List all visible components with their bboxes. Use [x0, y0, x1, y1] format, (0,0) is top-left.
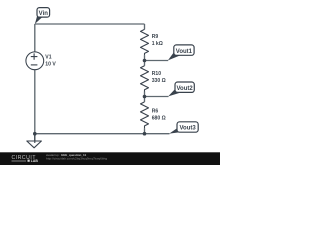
wire left vertical upper (Vin corner to V1 top) [34, 24, 36, 52]
svg-text:V1: V1 [45, 55, 51, 61]
svg-text:http://circuitlab.com/c2bq3hcq: http://circuitlab.com/c2bq3hcq9mq7kwq6bh… [46, 156, 107, 160]
wire top horizontal from Vin corner to R9 top [35, 23, 145, 25]
svg-text:Vout3: Vout3 [179, 126, 196, 132]
resistor R6 [141, 102, 149, 128]
ground [27, 134, 42, 148]
footer bar [0, 152, 220, 165]
label R9 value [152, 34, 163, 47]
wire R6 top lead [144, 97, 146, 102]
node flag Vin [35, 8, 50, 24]
node flag Vout1 [168, 45, 194, 61]
junction node Vout2 [143, 95, 147, 99]
junction node Vout1 [143, 59, 147, 63]
resistor R10 [141, 66, 149, 92]
wire R9 bottom lead to node Vout1 [144, 55, 146, 60]
wire R10 bottom lead to node Vout2 [144, 92, 146, 97]
svg-text:1 kΩ: 1 kΩ [152, 41, 163, 47]
junction node ground [33, 132, 37, 136]
node flag Vout3 [169, 122, 198, 134]
label R6 value [152, 109, 166, 122]
label V1 value [45, 55, 56, 68]
footer credit text [46, 153, 107, 160]
label R10 value [152, 71, 166, 84]
svg-text:680 Ω: 680 Ω [152, 116, 166, 122]
wire R10 top lead [144, 61, 146, 66]
wire node Vout1 horizontal [145, 60, 169, 62]
junction node bottom right [143, 132, 147, 136]
wire bottom horizontal (ground junction to Vout3 pointer) [35, 133, 170, 135]
svg-text:Vin: Vin [39, 11, 49, 17]
footer logo CircuitLab [12, 155, 39, 163]
node flag Vout2 [168, 82, 194, 96]
wire R6 bottom lead to bottom node [144, 128, 146, 133]
voltage source V1 circle [26, 52, 44, 70]
svg-text:R10: R10 [152, 71, 162, 77]
svg-text:Vout1: Vout1 [176, 49, 193, 55]
svg-text:LAB: LAB [31, 159, 39, 163]
wire R9 top lead [144, 24, 146, 29]
svg-text:Vout2: Vout2 [176, 86, 193, 92]
resistor R9 [141, 29, 149, 55]
svg-text:330 Ω: 330 Ω [152, 78, 166, 84]
svg-text:10 V: 10 V [45, 62, 56, 68]
wire left vertical lower (V1 bottom to ground junction) [34, 70, 36, 141]
svg-text:R9: R9 [152, 34, 159, 40]
svg-text:R6: R6 [152, 109, 159, 115]
wire node Vout2 horizontal [145, 96, 169, 98]
